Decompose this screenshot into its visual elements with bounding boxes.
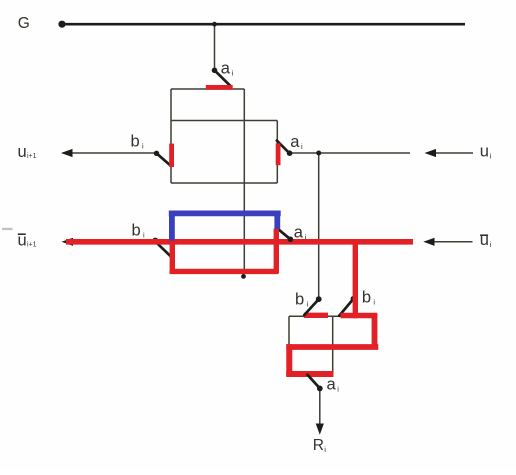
svg-text:a: a [290, 133, 300, 151]
svg-text:i+1: i+1 [27, 241, 37, 248]
svg-text:u: u [480, 231, 489, 249]
svg-text:b: b [132, 222, 141, 240]
svg-text:u: u [480, 142, 489, 160]
svg-text:a: a [294, 224, 304, 242]
svg-text:b: b [131, 132, 140, 150]
svg-text:b: b [362, 288, 371, 306]
svg-text:a: a [221, 59, 231, 77]
svg-text:u: u [18, 143, 27, 161]
svg-text:R: R [313, 437, 324, 454]
svg-text:G: G [18, 15, 30, 32]
svg-text:b: b [295, 290, 304, 308]
svg-text:a: a [327, 376, 337, 394]
svg-text:i+1: i+1 [27, 153, 37, 160]
